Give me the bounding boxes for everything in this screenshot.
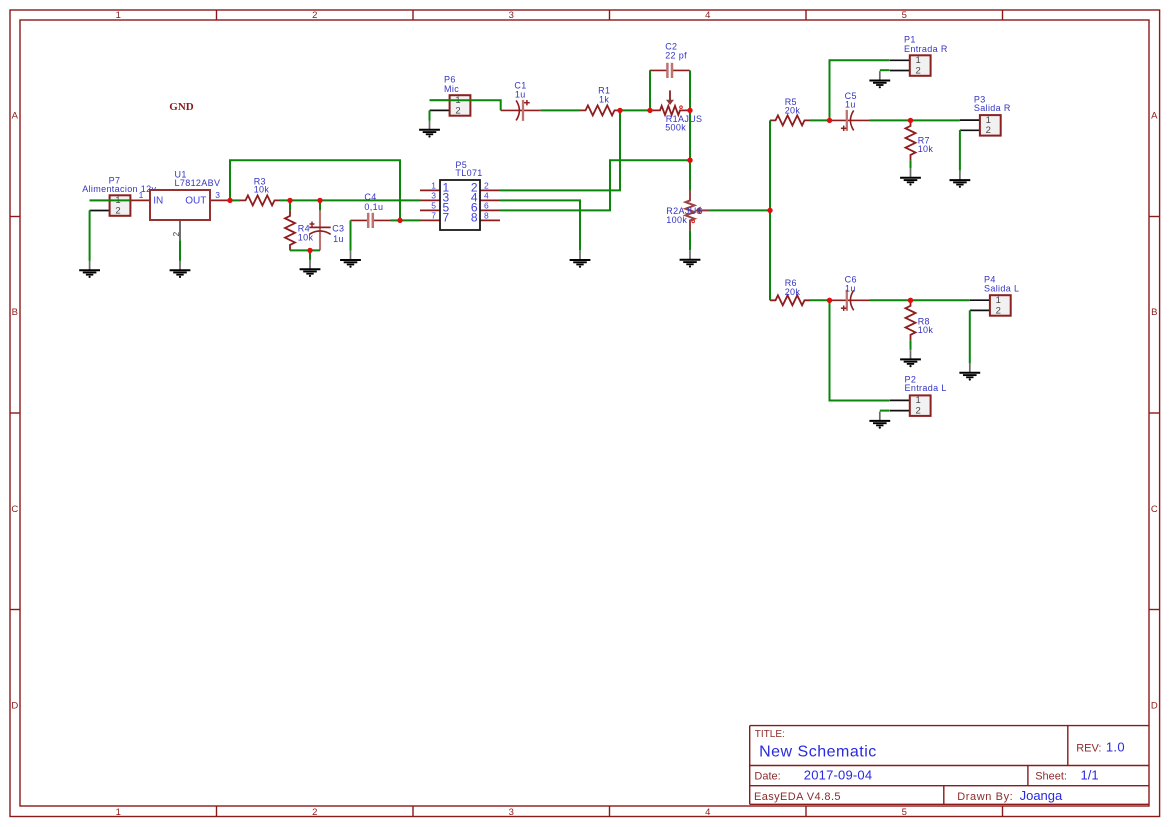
svg-text:Alimentacion 12v: Alimentacion 12v [82, 184, 156, 194]
wire C2 left leg [649, 70, 651, 110]
svg-text:D: D [1151, 701, 1158, 712]
svg-text:2: 2 [455, 105, 460, 116]
svg-text:100k: 100k [666, 215, 687, 225]
svg-text:1.0: 1.0 [1106, 740, 1125, 755]
svg-text:20k: 20k [785, 287, 801, 297]
svg-text:1: 1 [116, 10, 121, 21]
svg-text:1: 1 [986, 115, 991, 126]
ground (P4 pin2) [959, 364, 980, 381]
wire P4.2 to ground [969, 310, 971, 363]
svg-text:C: C [11, 504, 18, 515]
wire right rail down to R6 [769, 210, 771, 300]
wire R2AJUS wiper to right rail [710, 209, 770, 211]
wire P6.2 to ground [429, 111, 431, 121]
ground (P3 pin2) [950, 171, 971, 188]
ground (P1 pin2) [869, 71, 890, 88]
svg-text:B: B [1151, 307, 1157, 318]
svg-text:3: 3 [509, 10, 514, 21]
wire R2AJUS to ground [689, 230, 691, 250]
svg-text:Drawn By:: Drawn By: [957, 791, 1013, 803]
junction node C3 [317, 198, 322, 203]
svg-text:4: 4 [705, 10, 710, 21]
potentiometer R2AJUS 100k [666, 190, 710, 230]
svg-text:4: 4 [705, 807, 710, 818]
ground (P5 pin4) [570, 251, 591, 268]
wire P7.2 to ground [89, 210, 91, 261]
junction node C4/P5.7 [397, 218, 402, 223]
wire node2 to R2AJUS [689, 160, 691, 190]
connector P3 Salida R [960, 95, 1011, 137]
regulator U1 L7812ABV [130, 169, 230, 240]
connector P4 Salida L [970, 274, 1019, 316]
svg-text:1: 1 [916, 395, 921, 406]
svg-text:20k: 20k [785, 106, 801, 116]
wire P7.1 to U1.IN [90, 199, 131, 201]
wire node down to node2 [689, 110, 691, 160]
svg-text:2: 2 [996, 305, 1001, 316]
svg-text:2: 2 [916, 65, 921, 76]
svg-text:8: 8 [471, 210, 478, 224]
svg-text:1: 1 [996, 295, 1001, 306]
wire P1.2 to ground [880, 69, 890, 71]
capacitor C6 1u [830, 274, 870, 311]
resistor R6 20k [770, 278, 810, 305]
svg-text:IN: IN [153, 196, 163, 207]
resistor R5 20k [770, 97, 810, 126]
svg-text:1u: 1u [845, 100, 856, 110]
junction node R6/C6 [827, 298, 832, 303]
wire node down to P2.1 [830, 300, 890, 400]
wire R7 to ground [910, 160, 912, 168]
capacitor C3 1u [309, 210, 344, 250]
capacitor C4 0,1u [351, 192, 391, 228]
junction node R4/C3 gnd [307, 248, 312, 253]
wire node to P5.2 [500, 110, 620, 190]
svg-text:500k: 500k [665, 123, 686, 133]
svg-text:3: 3 [431, 191, 436, 201]
wire right rail up to R5 [769, 120, 771, 210]
svg-text:Joanga: Joanga [1020, 788, 1063, 803]
svg-text:Entrada L: Entrada L [905, 383, 947, 393]
connector P6 Mic [430, 75, 471, 117]
wire U1.OUT up to top rail [230, 160, 400, 220]
svg-text:5: 5 [431, 201, 436, 211]
svg-text:A: A [1151, 111, 1158, 122]
wire node up to P1.1 [830, 60, 890, 120]
wire node2 to P5.6 [500, 160, 690, 210]
svg-text:P6: P6 [444, 75, 456, 85]
junction node C5/R7 [908, 118, 913, 123]
junction node C2 right [687, 108, 692, 113]
ground (C4) [340, 251, 361, 268]
svg-text:EasyEDA V4.8.5: EasyEDA V4.8.5 [754, 791, 841, 803]
svg-text:1: 1 [139, 190, 144, 200]
connector P1 Entrada R [890, 35, 948, 77]
svg-text:B: B [12, 307, 18, 318]
wire R3 to R4 node [280, 199, 320, 201]
capacitor C1 1u [501, 81, 541, 121]
svg-text:2017-09-04: 2017-09-04 [804, 768, 873, 783]
svg-text:10k: 10k [918, 144, 934, 154]
wire P6.1 to C1 [430, 100, 501, 110]
resistor R7 10k [906, 120, 934, 160]
junction node P5.6 rail [687, 158, 692, 163]
svg-text:OUT: OUT [185, 196, 206, 207]
wire P3.2 to ground [959, 130, 961, 171]
svg-text:5: 5 [902, 10, 907, 21]
svg-text:1/1: 1/1 [1081, 768, 1099, 783]
resistor R3 10k [240, 176, 280, 205]
wire U1.OUT to R3 [230, 199, 240, 201]
svg-text:TITLE:: TITLE: [755, 729, 785, 740]
net label GND [169, 101, 194, 113]
svg-text:2: 2 [115, 205, 120, 216]
svg-text:C: C [1151, 504, 1158, 515]
wire R6 to node [810, 299, 830, 301]
capacitor C5 1u [830, 91, 870, 131]
svg-text:22 pf: 22 pf [665, 51, 687, 61]
svg-text:2: 2 [171, 232, 181, 237]
svg-text:GND: GND [169, 101, 194, 113]
wire node to P5.7 [400, 219, 420, 221]
junction node R3/R4 [287, 198, 292, 203]
op-amp P5 TL071 [420, 160, 500, 230]
svg-text:L7812ABV: L7812ABV [175, 178, 221, 188]
wire R5 to node [810, 119, 830, 121]
svg-text:2: 2 [312, 10, 317, 21]
wire C4 right to node [391, 219, 401, 221]
svg-text:2: 2 [916, 406, 921, 417]
junction node wiper rail [767, 208, 772, 213]
wire node to P5.3 [320, 199, 420, 201]
wire node to P4.1 [911, 299, 970, 301]
svg-text:Mic: Mic [444, 84, 459, 94]
svg-text:REV:: REV: [1076, 743, 1101, 755]
wire C4 left to ground [350, 220, 352, 250]
junction node R5/C5 [827, 118, 832, 123]
svg-text:2: 2 [484, 181, 489, 191]
wire P5.4 to ground [500, 200, 580, 250]
svg-text:1k: 1k [599, 94, 609, 104]
svg-text:0,1u: 0,1u [364, 202, 383, 212]
svg-text:C3: C3 [332, 223, 344, 233]
title block [750, 726, 1149, 805]
ground (R8) [900, 350, 921, 367]
wire C3 stub [319, 200, 321, 210]
svg-text:D: D [11, 701, 18, 712]
svg-text:Salida R: Salida R [974, 103, 1011, 113]
svg-text:3: 3 [215, 190, 220, 200]
ground (R2AJUS) [680, 251, 701, 268]
svg-text:1u: 1u [515, 89, 526, 99]
wire C1 to R1 [541, 109, 580, 111]
wire C6 to R8 node [870, 299, 911, 301]
svg-text:5: 5 [902, 807, 907, 818]
ground (R7) [900, 169, 921, 186]
svg-text:A: A [12, 111, 19, 122]
wire bottom node to ground [309, 250, 311, 260]
resistor R1 1k [580, 86, 620, 116]
title block text [754, 729, 1125, 803]
svg-text:1u: 1u [845, 283, 856, 293]
svg-text:2: 2 [312, 807, 317, 818]
ground (P7 pin2) [79, 261, 100, 278]
ground (R4/C3) [300, 260, 321, 277]
wire U1.2 to ground [179, 240, 181, 261]
svg-text:7: 7 [443, 210, 450, 224]
ground (P6 pin2) [419, 121, 440, 138]
svg-text:10k: 10k [254, 185, 270, 195]
svg-text:Entrada R: Entrada R [904, 44, 948, 54]
svg-text:6: 6 [484, 201, 489, 211]
ground (U1 pin2) [170, 261, 191, 278]
junction node U1.OUT [227, 198, 232, 203]
svg-text:New Schematic: New Schematic [759, 744, 877, 761]
wire C5 to R7 node [870, 119, 911, 121]
capacitor C2 22pf [650, 42, 690, 79]
svg-text:7: 7 [431, 211, 436, 221]
svg-text:1: 1 [916, 55, 921, 66]
junction node R1/P5.2 [617, 108, 622, 113]
wire node to P3.1 [911, 119, 960, 121]
svg-text:10k: 10k [918, 325, 934, 335]
wire R4/C3 bottom [290, 249, 320, 251]
junction node C6/R8 [908, 298, 913, 303]
svg-text:3: 3 [509, 807, 514, 818]
junction node C2 left [647, 108, 652, 113]
wire R1 to node [620, 109, 650, 111]
wire C2 right leg [689, 70, 691, 110]
svg-text:TL071: TL071 [455, 168, 482, 178]
wire R4 stub [289, 200, 291, 210]
svg-text:1: 1 [431, 181, 436, 191]
resistor R8 10k [906, 300, 934, 340]
svg-text:Salida L: Salida L [984, 284, 1019, 294]
svg-text:Date:: Date: [754, 771, 780, 783]
ground (P2 pin2) [869, 412, 890, 429]
svg-text:1: 1 [116, 807, 121, 818]
svg-text:2: 2 [986, 125, 991, 136]
wire R8 to ground [910, 340, 912, 350]
resistor R4 10k [285, 210, 314, 250]
svg-text:8: 8 [484, 211, 489, 221]
wire P2.2 to ground [880, 410, 890, 412]
potentiometer R1AJUS 500k [650, 90, 702, 132]
svg-text:1u: 1u [333, 234, 344, 244]
svg-text:Sheet:: Sheet: [1035, 771, 1067, 783]
connector P7 Alimentacion 12v [82, 175, 156, 216]
connector P2 Entrada L [890, 374, 947, 416]
svg-text:4: 4 [484, 191, 489, 201]
